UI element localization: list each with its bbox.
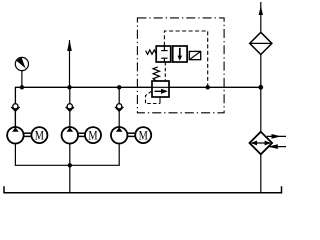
pump P2	[62, 127, 79, 144]
cooler	[250, 132, 273, 155]
blocked port top	[163, 46, 165, 51]
wire riser pump1	[14, 104, 16, 127]
node outlet junction	[67, 85, 71, 89]
blocked port bottom	[163, 58, 165, 62]
flow arrow right box	[179, 48, 181, 57]
wire pump2 suction	[69, 144, 71, 166]
motor M2	[85, 127, 101, 143]
check valve V1	[11, 104, 19, 111]
solenoid valve (2/2 directional)	[156, 46, 187, 62]
wire pressure bus	[15, 87, 152, 127]
motor M1	[31, 127, 47, 143]
pressure gauge	[15, 57, 28, 87]
filter F1	[250, 32, 272, 54]
pilot sense line relief	[146, 91, 161, 103]
node pilot junction	[206, 85, 210, 89]
wire riser pump3	[118, 87, 120, 127]
svg-text:M: M	[35, 128, 44, 142]
svg-text:M: M	[139, 128, 148, 142]
coupling P3-M3	[128, 133, 136, 136]
wire suction manifold	[15, 144, 119, 166]
coupling P1-M1	[24, 133, 32, 136]
tank	[4, 186, 282, 192]
pilot line (dashed) valve top to bus	[164, 31, 207, 87]
pump P1	[7, 127, 24, 144]
relief valve	[152, 81, 169, 97]
pilot vent line valve to relief	[164, 62, 166, 81]
svg-text:M: M	[88, 128, 97, 142]
coolant out arrow	[267, 134, 286, 139]
wire bus to filter column	[169, 86, 261, 88]
wire bus to cooler	[260, 87, 262, 131]
wire filter to bus	[260, 55, 262, 88]
wire outlet line with arrow	[67, 40, 72, 88]
solenoid coil	[189, 51, 200, 59]
node gauge junction	[20, 85, 24, 89]
pump P3	[111, 127, 128, 144]
coolant in arrow	[268, 144, 286, 149]
spring relief valve	[153, 67, 159, 81]
wire filter line top with arrow	[259, 2, 263, 33]
coupling P2-M2	[78, 133, 85, 136]
node column junction	[258, 85, 263, 90]
enclosure (valve assembly)	[137, 18, 224, 113]
wire cooler to tank	[260, 154, 262, 192]
check valve V3	[115, 104, 123, 111]
spring valve left	[146, 50, 157, 54]
node manifold junction	[68, 163, 72, 167]
motor M3	[135, 127, 151, 143]
check valve V2	[66, 104, 74, 111]
wire manifold to tank	[69, 165, 71, 192]
node riser3 junction	[117, 85, 121, 89]
wire riser pump2	[69, 87, 71, 127]
